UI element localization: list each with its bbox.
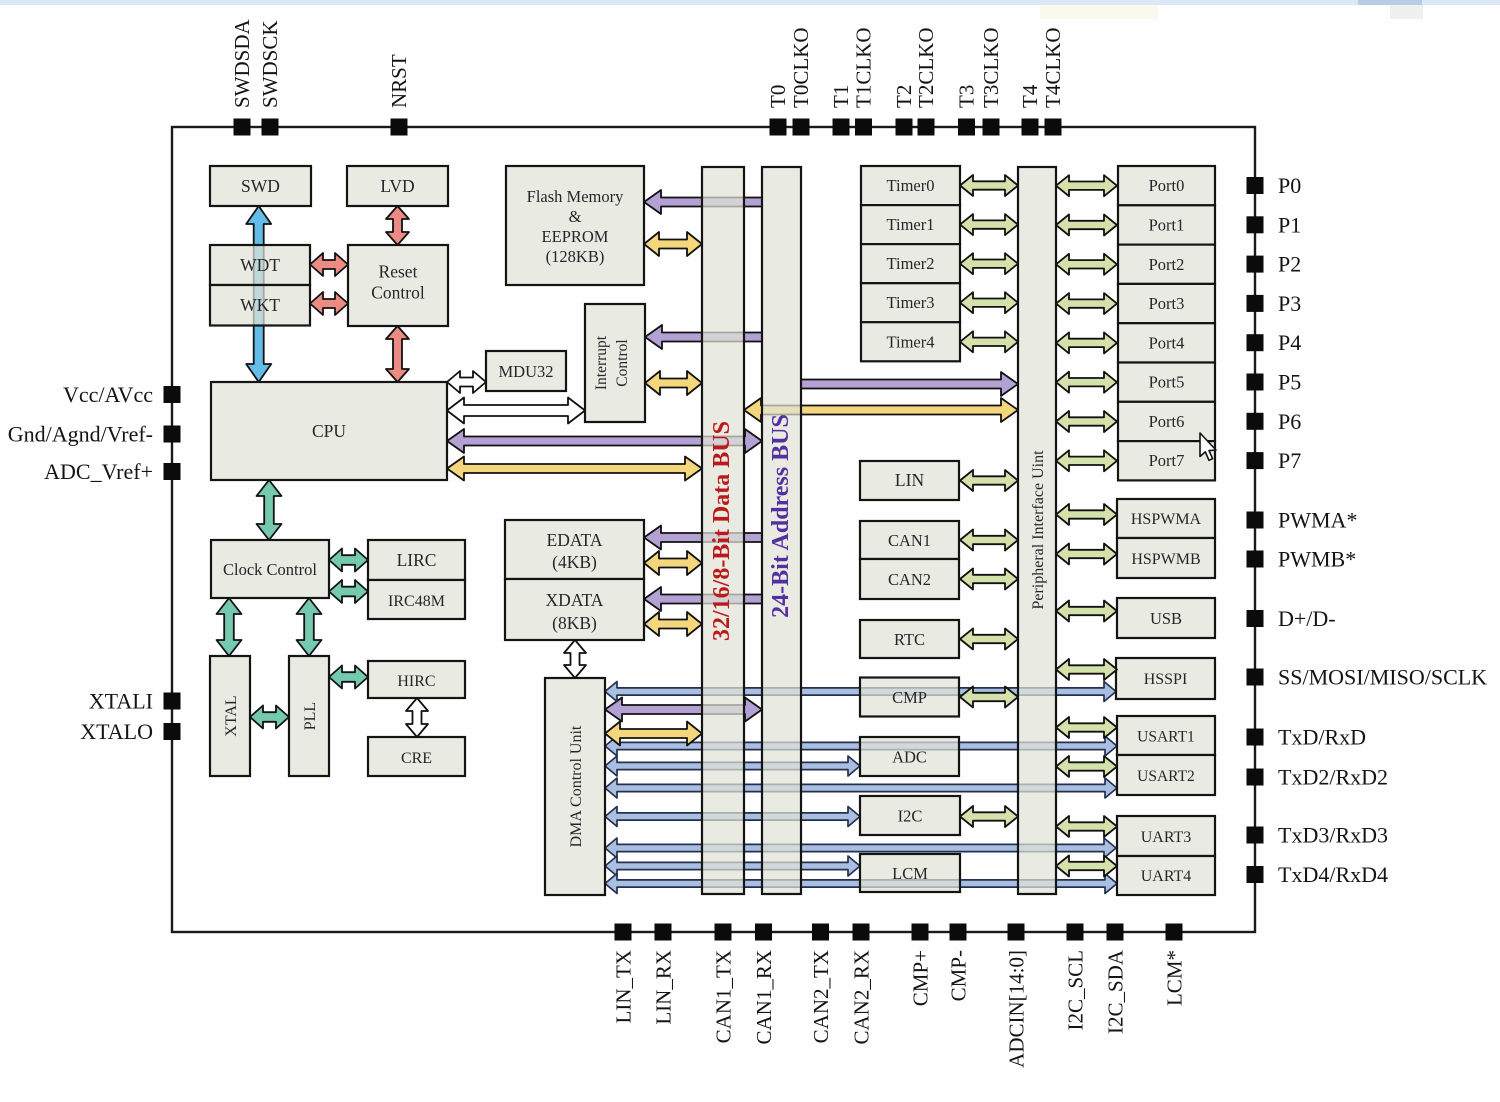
wire XTAL to PLL (teal) [250, 706, 289, 729]
block Port0 [1118, 166, 1215, 205]
svg-text:XTAL: XTAL [223, 695, 240, 736]
wire CAN1 to Peripheral Interface Unit (green) [960, 530, 1018, 551]
block PLL [289, 656, 329, 776]
svg-text:XTALO: XTALO [80, 719, 153, 744]
block Port7 [1118, 441, 1215, 480]
svg-text:Timer4: Timer4 [887, 332, 935, 351]
svg-text:Port5: Port5 [1149, 373, 1185, 392]
wire DMA to I2C (blue DMA channel) [605, 807, 860, 827]
svg-text:T2: T2 [892, 85, 916, 108]
wire DMA to HSSPI (blue DMA channel) [605, 682, 1116, 702]
wire I2C to Peripheral Interface Unit (green) [960, 806, 1018, 827]
svg-text:T1: T1 [829, 85, 853, 108]
wire DMA to LCM (blue DMA channel) [605, 856, 860, 876]
pin CAN1_RX [755, 924, 772, 941]
wire Clock Control to PLL (teal) [297, 598, 322, 656]
wire CPU to Address BUS (purple) [447, 429, 762, 453]
svg-text:CMP+: CMP+ [909, 950, 933, 1006]
wire XDATA to DMA (white) [564, 640, 586, 678]
pin ADC_Vref+ [164, 463, 181, 480]
block ADC [860, 737, 959, 776]
svg-text:UART3: UART3 [1141, 829, 1192, 846]
svg-text:P4: P4 [1278, 330, 1301, 355]
pin CAN2_TX [812, 924, 829, 941]
wire Reset Control to CPU (red) [386, 326, 409, 382]
wire Interrupt Control to Address BUS (purple) [645, 325, 762, 349]
svg-text:CAN1: CAN1 [888, 531, 931, 550]
wire DMA to UART3 (blue DMA channel) [605, 838, 1116, 858]
svg-text:T4: T4 [1018, 84, 1042, 108]
block IRC48M [368, 580, 465, 619]
wire LIN to Peripheral Interface Unit (green) [960, 470, 1018, 491]
svg-text:T3: T3 [955, 85, 979, 108]
wire Interrupt Control to Data BUS (yellow) [645, 371, 702, 395]
pin NRST [391, 119, 408, 136]
pin D+/D- [1247, 610, 1264, 627]
svg-text:Port7: Port7 [1149, 451, 1185, 470]
block Timer3 [861, 283, 960, 322]
wire CPU to Interrupt Control (white) [447, 398, 585, 424]
block Timer1 [861, 205, 960, 244]
svg-text:SWDSDA: SWDSDA [230, 18, 254, 108]
svg-text:Reset: Reset [379, 262, 418, 282]
pin T2CLKO [918, 119, 935, 136]
wire Clock Control to IRC48M (teal) [329, 580, 368, 603]
block Port4 [1118, 323, 1215, 362]
svg-text:USB: USB [1150, 609, 1182, 628]
block HSPWMA [1117, 499, 1215, 538]
wire HIRC to CRE (white) [406, 698, 428, 737]
pin TxD4/RxD4 [1247, 866, 1264, 883]
chip outline border [172, 127, 1255, 932]
svg-text:SWD: SWD [241, 176, 280, 196]
pin P6 [1247, 413, 1264, 430]
pin TxD2/RxD2 [1247, 769, 1264, 786]
wire Peripheral Interface Unit to Port3 (green) [1056, 293, 1117, 314]
wire PLL to HIRC (teal) [329, 666, 368, 689]
pin T3 [958, 119, 975, 136]
block RTC [860, 620, 959, 658]
wire XDATA to Address BUS (purple) [644, 587, 762, 611]
block Port6 [1118, 402, 1215, 441]
svg-text:USART1: USART1 [1137, 729, 1195, 746]
svg-text:P2: P2 [1278, 252, 1301, 277]
block I2C [860, 796, 960, 835]
wire Address BUS to Peripheral Interface Unit (purple) [801, 372, 1018, 396]
svg-text:USART2: USART2 [1137, 768, 1195, 785]
pin CMP- [950, 924, 967, 941]
wire Peripheral Interface Unit to USART2 (green) [1056, 756, 1117, 777]
svg-text:CAN2_TX: CAN2_TX [809, 950, 833, 1043]
wire DMA to UART4 (blue DMA channel) [605, 874, 1117, 894]
svg-text:LIRC: LIRC [397, 550, 437, 570]
svg-text:PWMA*: PWMA* [1278, 508, 1357, 533]
block LIN [860, 461, 959, 500]
block Timer4 [861, 322, 960, 361]
svg-text:Flash Memory: Flash Memory [527, 187, 624, 206]
svg-text:Interrupt: Interrupt [593, 335, 610, 390]
pin T0 [770, 119, 787, 136]
svg-text:LCM: LCM [892, 864, 928, 883]
wire Peripheral Interface Unit to Port7 (green) [1056, 450, 1117, 471]
pin T1CLKO [855, 119, 872, 136]
svg-text:P0: P0 [1278, 173, 1301, 198]
wire Peripheral Interface Unit to Port5 (green) [1056, 372, 1117, 393]
pin LIN_RX [655, 924, 672, 941]
svg-text:Control: Control [371, 283, 425, 303]
wire Peripheral Interface Unit to UART3 (green) [1056, 816, 1117, 837]
wire DMA to ADC (blue DMA channel) [605, 756, 860, 776]
svg-text:Vcc/AVcc: Vcc/AVcc [63, 382, 153, 407]
block CAN2 [860, 559, 959, 599]
pin T1 [833, 119, 850, 136]
block Timer0 [861, 166, 960, 205]
pin CAN2_RX [853, 924, 870, 941]
svg-text:EDATA: EDATA [547, 530, 603, 550]
svg-text:(8KB): (8KB) [552, 613, 597, 633]
svg-text:Timer2: Timer2 [887, 254, 935, 273]
pin I2C_SDA [1107, 924, 1124, 941]
svg-text:CAN2_RX: CAN2_RX [850, 950, 874, 1045]
wire Peripheral Interface Unit to Port0 (green) [1056, 175, 1117, 196]
wire LVD to Reset Control (red) [386, 206, 409, 245]
block CMP [860, 678, 959, 717]
wire DMA to USART1 (blue DMA channel) [605, 736, 1117, 756]
svg-text:CAN1_TX: CAN1_TX [712, 950, 736, 1043]
bus bar Peripheral Interface Uint [1018, 167, 1056, 894]
svg-text:P1: P1 [1278, 212, 1301, 237]
svg-text:Gnd/Agnd/Vref-: Gnd/Agnd/Vref- [8, 422, 153, 447]
wire Timer3 to Peripheral Interface Unit (green) [960, 292, 1018, 313]
wire CAN2 to Peripheral Interface Unit (green) [960, 569, 1018, 590]
block Clock [211, 540, 329, 598]
svg-text:Port2: Port2 [1149, 255, 1185, 274]
pin XTALO [164, 723, 181, 740]
wire Peripheral Interface Unit to HSPWMA (green) [1056, 504, 1117, 525]
svg-text:I2C_SDA: I2C_SDA [1104, 949, 1128, 1034]
svg-text:Timer3: Timer3 [887, 293, 935, 312]
svg-text:Port6: Port6 [1149, 412, 1185, 431]
svg-text:P7: P7 [1278, 448, 1301, 473]
wire Peripheral Interface Unit to Port1 (green) [1056, 215, 1117, 236]
block UART3 [1117, 816, 1215, 856]
pin TxD/RxD [1247, 729, 1264, 746]
block DMA [545, 678, 605, 895]
block Port2 [1118, 245, 1215, 284]
svg-text:Port1: Port1 [1149, 216, 1185, 235]
wire WDT to Reset Control (red) [310, 253, 348, 276]
pin Gnd/Agnd/Vref- [164, 426, 181, 443]
pin P4 [1247, 334, 1264, 351]
svg-text:Port0: Port0 [1149, 176, 1185, 195]
wire Peripheral Interface Unit to USART1 (green) [1056, 717, 1117, 738]
block SWD [210, 166, 311, 206]
svg-text:WKT: WKT [240, 295, 280, 315]
svg-text:HSPWMB: HSPWMB [1131, 551, 1200, 568]
svg-text:24-Bit Address BUS: 24-Bit Address BUS [768, 414, 794, 618]
svg-text:D+/D-: D+/D- [1278, 606, 1336, 631]
svg-text:T1CLKO: T1CLKO [852, 28, 876, 109]
wire CPU to Clock Control (teal) [257, 480, 282, 540]
pin PWMA* [1247, 512, 1264, 529]
block HIRC [368, 661, 465, 698]
svg-text:P3: P3 [1278, 291, 1301, 316]
bus bar 32/16/8-Bit Data BUS [702, 167, 744, 894]
svg-text:UART4: UART4 [1141, 868, 1192, 885]
block WDT [210, 245, 310, 285]
svg-text:ADC: ADC [892, 748, 927, 767]
svg-text:ADCIN[14:0]: ADCIN[14:0] [1005, 950, 1029, 1068]
wire WKT to Reset Control (red) [310, 292, 348, 315]
svg-text:EEPROM: EEPROM [542, 227, 609, 246]
svg-text:Control: Control [614, 339, 631, 386]
pin CAN1_TX [715, 924, 732, 941]
wire Peripheral Interface Unit to Port6 (green) [1056, 411, 1117, 432]
block WKT [210, 285, 310, 326]
svg-text:NRST: NRST [387, 54, 411, 108]
svg-text:Peripheral Interface Uint: Peripheral Interface Uint [1030, 450, 1047, 610]
svg-text:T2CLKO: T2CLKO [914, 28, 938, 109]
block LIRC [368, 540, 465, 580]
pin Vcc/AVcc [164, 386, 181, 403]
pin P2 [1247, 256, 1264, 273]
svg-text:Port3: Port3 [1149, 294, 1185, 313]
wire Clock Control to XTAL (teal) [217, 598, 242, 656]
svg-text:HSSPI: HSSPI [1144, 671, 1188, 688]
pin T4 [1022, 119, 1039, 136]
svg-text:MDU32: MDU32 [498, 362, 553, 381]
wire RTC to Peripheral Interface Unit (green) [960, 629, 1018, 650]
block Port3 [1118, 284, 1215, 323]
svg-text:T0: T0 [766, 85, 790, 108]
svg-text:T0CLKO: T0CLKO [789, 28, 813, 109]
block MDU32 [486, 351, 566, 391]
svg-text:CPU: CPU [312, 421, 346, 441]
wire Flash to Address BUS (purple) [644, 190, 762, 214]
svg-text:HSPWMA: HSPWMA [1131, 511, 1202, 528]
pin SWDSCK [262, 119, 279, 136]
svg-text:TxD/RxD: TxD/RxD [1278, 725, 1366, 750]
svg-text:SS/MOSI/MISO/SCLK: SS/MOSI/MISO/SCLK [1278, 665, 1487, 690]
block USB [1117, 598, 1215, 638]
svg-text:P6: P6 [1278, 409, 1301, 434]
pin T4CLKO [1045, 119, 1062, 136]
svg-text:SWDSCK: SWDSCK [258, 20, 282, 108]
pin ADCIN[14:0] [1008, 924, 1025, 941]
wire CPU to Data BUS (yellow) [447, 457, 702, 481]
block Interrupt [585, 304, 645, 422]
svg-text:Port4: Port4 [1149, 333, 1185, 352]
svg-text:DMA Control Unit: DMA Control Unit [568, 725, 585, 847]
wire Peripheral Interface Unit to Port2 (green) [1056, 254, 1117, 275]
wire SWD to CPU (SWD debug bus, sky blue) [246, 206, 271, 382]
svg-text:Timer1: Timer1 [887, 215, 935, 234]
pin CMP+ [912, 924, 929, 941]
mouse cursor [1200, 433, 1216, 460]
block Reset [348, 245, 448, 326]
svg-text:T3CLKO: T3CLKO [979, 28, 1003, 109]
pin P1 [1247, 216, 1264, 233]
block UART4 [1117, 856, 1215, 895]
svg-text:PLL: PLL [302, 702, 319, 730]
block XTAL [210, 656, 250, 776]
pin LIN_TX [615, 924, 632, 941]
svg-text:P5: P5 [1278, 370, 1301, 395]
svg-text:ADC_Vref+: ADC_Vref+ [44, 459, 153, 484]
wire Clock Control to LIRC (teal) [329, 549, 368, 572]
wire DMA to Data BUS (yellow) [605, 722, 702, 746]
block CAN1 [860, 521, 959, 559]
pin P5 [1247, 374, 1264, 391]
pin P3 [1247, 295, 1264, 312]
svg-text:XDATA: XDATA [546, 590, 604, 610]
pin I2C_SCL [1067, 924, 1084, 941]
wire Peripheral Interface Unit to Port4 (green) [1056, 332, 1117, 353]
pin T2 [896, 119, 913, 136]
svg-text:CAN1_RX: CAN1_RX [752, 950, 776, 1045]
svg-text:CRE: CRE [401, 750, 432, 767]
block HSSPI [1116, 658, 1215, 699]
wire Peripheral Interface Unit to HSSPI (green) [1056, 659, 1117, 680]
svg-text:I2C_SCL: I2C_SCL [1064, 950, 1088, 1031]
svg-text:WDT: WDT [240, 255, 280, 275]
pin T3CLKO [983, 119, 1000, 136]
pin P0 [1247, 177, 1264, 194]
svg-text:&: & [569, 207, 582, 226]
block Flash [506, 166, 644, 285]
block HSPWMB [1117, 538, 1215, 578]
block Port1 [1118, 205, 1215, 244]
svg-text:Clock Control: Clock Control [223, 560, 317, 579]
svg-text:XTALI: XTALI [89, 689, 153, 714]
svg-text:CMP: CMP [892, 688, 927, 707]
wire Timer1 to Peripheral Interface Unit (green) [960, 214, 1018, 235]
wire EDATA to Address BUS (purple) [644, 526, 762, 550]
wire Peripheral Interface Unit to USB (green) [1056, 601, 1117, 622]
wire XDATA to Data BUS (yellow) [644, 612, 702, 636]
block Timer2 [861, 244, 960, 283]
svg-text:(4KB): (4KB) [552, 552, 597, 572]
block CPU [211, 382, 447, 480]
wire Data BUS to Peripheral Interface Unit (yellow) [744, 398, 1018, 422]
pin P7 [1247, 452, 1264, 469]
wire Peripheral Interface Unit to HSPWMB (green) [1056, 544, 1117, 565]
svg-text:PWMB*: PWMB* [1278, 547, 1356, 572]
wire CPU to MDU32 (white) [447, 371, 486, 393]
pin TxD3/RxD3 [1247, 827, 1264, 844]
block Port5 [1118, 363, 1215, 402]
pin SWDSDA [234, 119, 251, 136]
pin T0CLKO [793, 119, 810, 136]
svg-text:CMP-: CMP- [947, 950, 971, 1001]
svg-text:LIN_TX: LIN_TX [612, 950, 636, 1023]
pin XTALI [164, 693, 181, 710]
pin LCM* [1166, 924, 1183, 941]
block LVD [347, 166, 448, 206]
svg-text:IRC48M: IRC48M [388, 593, 445, 610]
svg-text:TxD3/RxD3: TxD3/RxD3 [1278, 823, 1388, 848]
wire DMA to USART2 (blue DMA channel) [605, 778, 1117, 798]
svg-text:I2C: I2C [898, 807, 923, 826]
block EDATA [505, 520, 644, 579]
svg-text:Timer0: Timer0 [887, 176, 935, 195]
svg-text:(128KB): (128KB) [546, 247, 605, 266]
wire Flash to Data BUS (yellow) [644, 232, 702, 256]
pin SS/MOSI/MISO/SCLK [1247, 669, 1264, 686]
svg-text:LCM*: LCM* [1163, 950, 1187, 1006]
svg-text:CAN2: CAN2 [888, 570, 931, 589]
block XDATA [505, 579, 644, 640]
block USART1 [1117, 716, 1215, 755]
wire DMA to Address BUS (purple) [605, 698, 762, 722]
block CRE [368, 737, 465, 776]
wire Peripheral Interface Unit to UART4 (green) [1056, 856, 1117, 877]
pin PWMB* [1247, 551, 1264, 568]
svg-text:32/16/8-Bit Data BUS: 32/16/8-Bit Data BUS [709, 421, 735, 641]
svg-text:TxD2/RxD2: TxD2/RxD2 [1278, 765, 1388, 790]
svg-text:LIN: LIN [895, 470, 925, 490]
wire Timer0 to Peripheral Interface Unit (green) [960, 175, 1018, 196]
wire Timer2 to Peripheral Interface Unit (green) [960, 253, 1018, 274]
svg-text:LVD: LVD [380, 176, 414, 196]
svg-text:HIRC: HIRC [397, 673, 435, 690]
svg-text:LIN_RX: LIN_RX [652, 950, 676, 1025]
svg-text:T4CLKO: T4CLKO [1041, 28, 1065, 109]
block USART2 [1117, 755, 1215, 795]
wire CMP to Peripheral Interface Unit (green) [960, 687, 1018, 708]
bus bar 24-Bit Address BUS [762, 167, 801, 894]
wire EDATA to Data BUS (yellow) [644, 551, 702, 575]
wire Timer4 to Peripheral Interface Unit (green) [960, 331, 1018, 352]
svg-text:RTC: RTC [894, 630, 925, 649]
block LCM [860, 854, 960, 892]
svg-text:TxD4/RxD4: TxD4/RxD4 [1278, 862, 1388, 887]
